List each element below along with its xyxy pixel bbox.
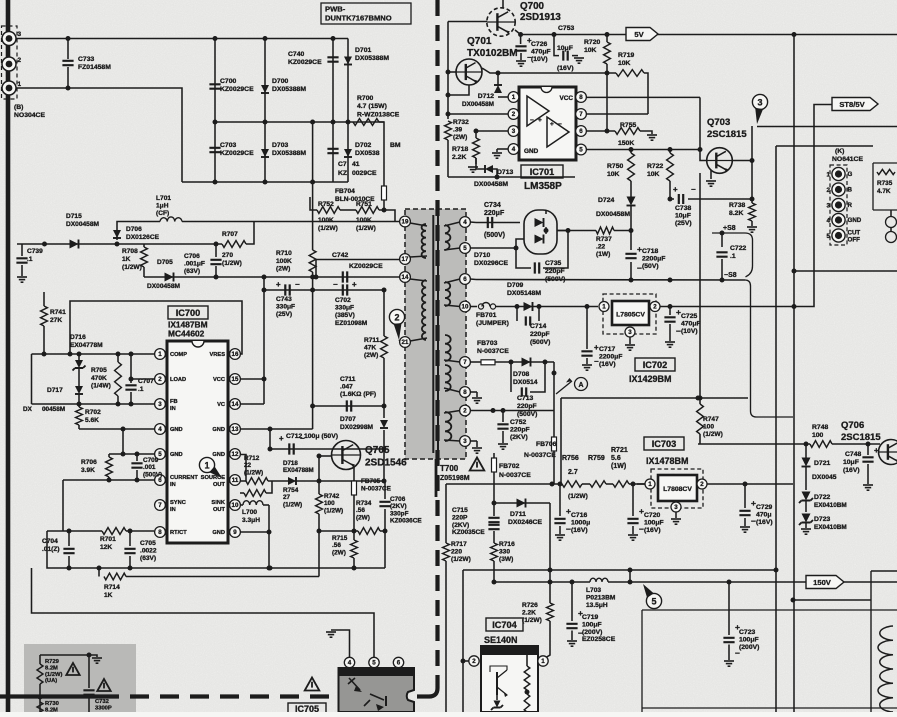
fuse FB706 (552, 437, 557, 451)
svg-text:R730: R730 (45, 701, 59, 707)
svg-text:DX: DX (23, 406, 33, 413)
flag 2 (389, 309, 404, 324)
IC700 pin 15 VCC (230, 374, 241, 385)
svg-text:100K: 100K (276, 258, 292, 265)
svg-text:R707: R707 (222, 231, 238, 238)
wire top rail y39 (16, 38, 348, 40)
diode D717 (75, 386, 83, 394)
svg-text:R750: R750 (607, 163, 623, 170)
svg-text:2: 2 (512, 111, 516, 118)
wire Q701 base (448, 71, 456, 73)
capacitor C707 (130, 354, 132, 383)
resistor R742 (316, 494, 323, 514)
svg-text:R755: R755 (620, 122, 636, 129)
sense block top wire (40, 654, 89, 656)
capacitor C722 (721, 233, 723, 247)
wire pin4 ground arm (331, 630, 350, 657)
IC705 pin 4 (344, 657, 354, 667)
svg-text:R748: R748 (812, 424, 828, 431)
wire y271 (794, 270, 897, 272)
wire R710 branch (312, 122, 314, 250)
transformer core (432, 215, 434, 453)
wire CURRENT y480 (63, 479, 154, 481)
svg-text:R729: R729 (45, 659, 60, 665)
svg-text:21: 21 (402, 339, 409, 346)
warning triangle IC705 (305, 678, 320, 691)
svg-text:D722: D722 (814, 494, 830, 501)
junction (310, 288, 315, 293)
svg-text:IX1478BM: IX1478BM (646, 456, 689, 466)
connector K pin 5 CUT OFF (832, 229, 845, 242)
dashed divider horizontal (0, 694, 100, 698)
wire ST8 riser (655, 105, 833, 307)
svg-text:N-0037CE: N-0037CE (361, 486, 392, 493)
svg-text:(1/4W): (1/4W) (91, 383, 111, 390)
junction (213, 36, 218, 41)
svg-text:(16V): (16V) (599, 361, 616, 368)
svg-text:2: 2 (394, 312, 399, 322)
wire pin5 to bridge (516, 239, 524, 248)
svg-text:DX0246CE: DX0246CE (508, 519, 542, 526)
T700 pin 19 (401, 221, 405, 223)
svg-text:ST8/5V: ST8/5V (839, 100, 865, 109)
svg-text:3: 3 (158, 401, 162, 408)
wire Q700 collector up (502, 0, 504, 8)
resistor R747 (697, 404, 704, 434)
svg-text:5: 5 (372, 660, 376, 667)
svg-text:KZ0035CE: KZ0035CE (452, 529, 485, 536)
wire base feed y444 (698, 443, 810, 445)
svg-text:(2W): (2W) (453, 134, 467, 141)
svg-text:1: 1 (18, 81, 22, 88)
capacitor C735 (516, 248, 531, 268)
svg-text:−S8: −S8 (724, 272, 737, 279)
svg-text:DUNTK7167BMNO: DUNTK7167BMNO (325, 14, 392, 23)
svg-text:C714: C714 (530, 323, 546, 330)
svg-text:R752: R752 (318, 201, 334, 208)
L7805 pin 1 (599, 302, 609, 312)
wire x752 (751, 126, 753, 203)
svg-text:27: 27 (283, 494, 291, 501)
primary winding P1 (422, 224, 426, 258)
warning triangle near T700 (470, 458, 485, 471)
svg-text:4: 4 (512, 146, 516, 153)
svg-text:4: 4 (348, 660, 352, 667)
IC701 pin 3 (508, 126, 519, 137)
resistor R722 (667, 153, 674, 181)
svg-text:3.9K: 3.9K (81, 467, 95, 474)
wire primary feed y210 (310, 197, 317, 210)
wire y570 rail (463, 569, 776, 571)
svg-text:TX0102BM: TX0102BM (467, 48, 518, 59)
svg-text:5: 5 (651, 596, 656, 606)
svg-text:.001: .001 (143, 464, 156, 471)
svg-text:270: 270 (222, 252, 233, 259)
wire flag3 right y127 (757, 126, 897, 128)
wire Q703 collector (732, 160, 752, 162)
svg-text:10μF: 10μF (843, 459, 859, 466)
svg-text:OFF: OFF (848, 237, 861, 244)
T700 pin 4 (460, 217, 471, 228)
wire y277 (144, 277, 264, 290)
junction (668, 197, 673, 202)
transistor Q700 (487, 8, 515, 36)
wire pin12 y454 (241, 455, 247, 463)
IC700 pin 12 GND (230, 449, 241, 460)
svg-text:C733: C733 (78, 56, 94, 63)
svg-text:EX04778M: EX04778M (70, 342, 103, 349)
svg-text:3: 3 (674, 504, 678, 511)
svg-text:C712: C712 (286, 433, 302, 440)
svg-text:2200μF: 2200μF (642, 255, 665, 262)
svg-text:C709: C709 (143, 457, 159, 464)
IC700 label (168, 306, 208, 319)
transistor Q705 (332, 441, 361, 470)
svg-text:C740: C740 (288, 51, 304, 58)
svg-text:2SD1546: 2SD1546 (365, 458, 407, 469)
svg-text:KZ: KZ (338, 170, 347, 177)
IC701 pin 6 (576, 126, 587, 137)
wire Q703 emitter gnd (710, 170, 712, 179)
wire pin17 y260 (316, 260, 401, 278)
svg-text:PWB-: PWB- (325, 5, 346, 14)
svg-text:15: 15 (232, 376, 239, 383)
svg-text:.001μF: .001μF (184, 261, 205, 268)
svg-text:GND: GND (524, 148, 539, 155)
zener D718 (288, 477, 296, 485)
resistor R734 (358, 528, 380, 535)
capacitor C715 (488, 518, 499, 522)
junction (67, 529, 72, 534)
wire Q703 base riser (700, 97, 707, 160)
snubber box D708/C713 (510, 362, 512, 368)
svg-text:2: 2 (18, 57, 22, 64)
svg-text:(2W): (2W) (364, 352, 378, 359)
IC701 pin 8 (576, 92, 587, 103)
wire Q701 emitter y73 (482, 68, 616, 73)
svg-text:R715: R715 (332, 535, 348, 542)
resistor R729 (39, 655, 41, 664)
zener D716 (75, 360, 83, 368)
svg-text:IX1429BM: IX1429BM (629, 374, 672, 384)
capacitor C738 (670, 198, 674, 200)
resistor R708 (141, 247, 148, 267)
svg-text:IN: IN (170, 482, 176, 488)
wire x63 (62, 480, 64, 531)
wire top of IC703 loop y398 (561, 397, 748, 399)
svg-text:+: + (874, 446, 879, 455)
svg-text:D703: D703 (272, 142, 288, 149)
svg-text:4: 4 (463, 219, 467, 226)
svg-text:D717: D717 (47, 387, 63, 394)
op-amp IC701 box (519, 87, 576, 160)
secondary winding S3 (445, 335, 451, 361)
svg-text:LM358P: LM358P (524, 181, 562, 192)
svg-text:5.6K: 5.6K (85, 417, 99, 424)
svg-text:D702: D702 (355, 142, 371, 149)
node A arrow (556, 381, 572, 394)
IC700 pin 11 SOURCE OUT (230, 475, 241, 486)
resistor R714 (98, 568, 100, 577)
dashed divider corner (429, 688, 438, 697)
svg-text:FB704: FB704 (335, 188, 355, 195)
svg-text:−: − (558, 121, 562, 128)
wire 150V rail y582 (494, 581, 590, 583)
flyback winding (878, 626, 893, 712)
svg-text:C704: C704 (42, 538, 58, 545)
svg-text:(1/2W): (1/2W) (522, 617, 542, 624)
svg-text:4: 4 (827, 218, 831, 225)
connector K pin 2 B (832, 183, 845, 196)
svg-text:R716: R716 (499, 541, 515, 548)
wire Q705 base y456 (319, 455, 332, 457)
wire mid rail y122 (215, 121, 384, 123)
capacitor C726 (520, 35, 522, 45)
svg-text:1K: 1K (104, 592, 113, 599)
svg-text:DX0514: DX0514 (513, 379, 538, 386)
wire RT/CT y531 (47, 530, 102, 532)
diode D701 (344, 57, 352, 65)
T700 pin 14 (401, 276, 405, 278)
svg-text:100: 100 (324, 500, 335, 507)
svg-text:(K): (K) (835, 148, 844, 155)
svg-text:FB701: FB701 (476, 312, 497, 319)
svg-text:N-0037CE: N-0037CE (499, 472, 531, 479)
regulator IC703 dashed box (651, 469, 703, 508)
svg-text:1K: 1K (122, 256, 131, 263)
wire x700 rail (699, 173, 701, 398)
IC704 label (486, 618, 523, 631)
diode D712 (498, 96, 508, 98)
svg-text:(2W): (2W) (356, 514, 370, 521)
svg-text:8.2M: 8.2M (45, 665, 58, 671)
IC705 pin 6 (393, 657, 403, 667)
svg-text:16: 16 (232, 351, 239, 358)
svg-text:27K: 27K (50, 317, 62, 324)
svg-text:GND: GND (170, 452, 183, 458)
L7808 pin 3 (671, 502, 681, 512)
svg-text:IN: IN (170, 406, 176, 412)
svg-text:C753: C753 (558, 25, 574, 32)
capacitor C740 (327, 57, 338, 61)
svg-text:D711: D711 (510, 511, 526, 518)
svg-text:EZ0258CE: EZ0258CE (582, 636, 616, 643)
svg-text:DX05148M: DX05148M (507, 290, 541, 297)
svg-text:C702: C702 (335, 297, 351, 304)
svg-text:(63V): (63V) (184, 268, 200, 275)
capacitor C716 (559, 484, 561, 516)
capacitor C717 (586, 307, 588, 350)
resistor R707 (222, 241, 246, 248)
capacitor C706a (215, 244, 217, 257)
IC700 pin 16 VRES (230, 349, 241, 360)
transistor Q703 (707, 148, 733, 174)
svg-text:DX0045: DX0045 (812, 474, 837, 481)
resistor R712 (245, 462, 247, 481)
diode D706 (113, 230, 121, 238)
diode D700 (261, 85, 269, 93)
svg-text:100μF: 100μF (582, 621, 602, 628)
svg-text:2.7: 2.7 (568, 469, 578, 476)
svg-text:470μF: 470μF (531, 48, 551, 55)
svg-text:C748: C748 (845, 451, 861, 458)
capacitor C706b (384, 481, 386, 499)
svg-text:Q703: Q703 (707, 117, 730, 128)
svg-text:D716: D716 (70, 334, 86, 341)
svg-text:EX0410BM: EX0410BM (814, 524, 847, 531)
op-amp A triangle (527, 96, 549, 126)
wire x630 stub (629, 570, 631, 582)
capacitor C723 (728, 582, 730, 635)
svg-text:R700: R700 (357, 95, 373, 102)
svg-text:2.2K: 2.2K (522, 609, 536, 616)
svg-text:12K: 12K (100, 544, 112, 551)
svg-text:R735: R735 (877, 180, 893, 187)
svg-text:C720: C720 (644, 512, 660, 519)
svg-text:−: − (566, 524, 571, 534)
svg-text:220pF: 220pF (510, 427, 530, 434)
svg-text:8: 8 (158, 529, 162, 536)
svg-text:COMP: COMP (170, 352, 187, 358)
svg-text:−: − (333, 280, 338, 289)
svg-text:1: 1 (541, 658, 545, 665)
svg-text:(50V): (50V) (642, 263, 659, 270)
svg-text:(16V): (16V) (644, 527, 661, 534)
diode D703 (261, 149, 269, 157)
diode D715 (70, 240, 79, 249)
svg-text:DX00458M: DX00458M (147, 283, 180, 290)
IC704 pin 2 (469, 656, 479, 666)
svg-text:(UA): (UA) (45, 678, 57, 684)
IC705 internal phototransistor (364, 694, 384, 706)
svg-text:7: 7 (579, 111, 583, 118)
bottom right box lower edge (642, 707, 897, 709)
L7805 pin 3 (625, 327, 635, 337)
diode D709 (524, 302, 533, 311)
junction (331, 36, 336, 41)
svg-text:Z05198M: Z05198M (440, 475, 470, 482)
svg-text:DX05388M: DX05388M (272, 150, 306, 157)
wire C712 rail y449 (270, 448, 384, 450)
svg-text:G: G (848, 171, 853, 178)
svg-text:(1/2W): (1/2W) (451, 556, 471, 563)
wire y613 (32, 568, 375, 657)
svg-text:R705: R705 (91, 367, 107, 374)
svg-text:10K: 10K (607, 171, 620, 178)
svg-text:(16V): (16V) (756, 519, 773, 526)
junction (585, 304, 590, 309)
svg-text:5.6: 5.6 (611, 455, 621, 462)
T700 pin 5 (460, 243, 471, 254)
connector pin 1 (2, 81, 16, 95)
svg-text:T700: T700 (440, 464, 459, 473)
svg-text:C739: C739 (27, 248, 43, 255)
svg-text:100K: 100K (318, 217, 334, 224)
secondary winding S2 (445, 282, 450, 306)
rectifier diodes D710 (535, 218, 544, 227)
resistor R701 (102, 528, 126, 535)
junction (38, 695, 43, 700)
wire D701 branch (347, 39, 349, 183)
T700 pin 21 (401, 341, 405, 343)
IC702 label (635, 358, 675, 371)
svg-text:+: + (276, 280, 281, 289)
svg-text:R720: R720 (584, 39, 600, 46)
resistor R716 (491, 543, 498, 561)
IC701 pin 4 (508, 144, 519, 155)
ground pin 3 (476, 441, 478, 447)
svg-text:R741: R741 (50, 309, 66, 316)
IC705 pin 5 (369, 657, 379, 667)
svg-text:D709: D709 (507, 282, 523, 289)
svg-text:C742: C742 (332, 252, 348, 259)
svg-text:FB705: FB705 (361, 478, 381, 485)
svg-text:(1W): (1W) (611, 463, 626, 470)
regulator IC702 dashed box (603, 294, 656, 334)
L7805 pin 2 (650, 302, 660, 312)
svg-text:FB702: FB702 (499, 463, 520, 470)
wire x776 rail (775, 146, 777, 712)
svg-text:DX00458M: DX00458M (462, 101, 494, 108)
svg-text:100μF: 100μF (644, 519, 664, 526)
capacitor C703 (209, 148, 220, 152)
capacitor C713 (510, 368, 512, 392)
IC703 label (644, 437, 684, 450)
svg-text:R734: R734 (356, 500, 372, 507)
net flag 150V (806, 576, 844, 589)
junction (66, 36, 71, 41)
svg-text:Q701: Q701 (467, 36, 492, 47)
svg-text:L700: L700 (242, 509, 257, 516)
wire x319 low (318, 531, 320, 577)
junction (267, 530, 272, 535)
svg-text:+: + (550, 121, 554, 128)
svg-text:.1: .1 (730, 253, 736, 260)
regulator L7808CV body (658, 475, 697, 501)
IC700 pin 7 SYNC IN (155, 500, 166, 511)
svg-text:R: R (848, 202, 853, 209)
svg-text:10: 10 (232, 502, 239, 509)
svg-text:C743: C743 (276, 296, 292, 303)
svg-text:7: 7 (463, 359, 467, 366)
resistor R750 (628, 153, 635, 181)
capacitor C732 (88, 655, 90, 688)
svg-text:LOAD: LOAD (170, 377, 186, 383)
svg-text:R719: R719 (618, 52, 634, 59)
wire x264 down (263, 290, 265, 404)
svg-text:(385V): (385V) (335, 312, 355, 319)
svg-text:MC44602: MC44602 (168, 329, 205, 339)
svg-text:C738: C738 (675, 205, 691, 212)
resistor R754 (240, 492, 244, 494)
svg-text:(63V): (63V) (140, 555, 156, 562)
primary winding P2 (422, 280, 426, 340)
+S8 loop (712, 233, 753, 277)
capacitor C700 (209, 84, 220, 88)
svg-text:C705: C705 (140, 540, 156, 547)
svg-text:150K: 150K (618, 140, 634, 147)
svg-text:R-WZ0138CE: R-WZ0138CE (357, 111, 400, 118)
T700 pin 6 (460, 274, 471, 285)
svg-text:DX00458M: DX00458M (596, 211, 630, 218)
svg-text:8.2K: 8.2K (729, 210, 743, 217)
wire x554 down (553, 373, 555, 411)
connector pin 2 (2, 57, 16, 71)
resistor R730 (37, 702, 43, 712)
wire y244 (17, 243, 222, 245)
secondary winding S1 (445, 225, 450, 250)
wire pin9 (241, 531, 270, 533)
